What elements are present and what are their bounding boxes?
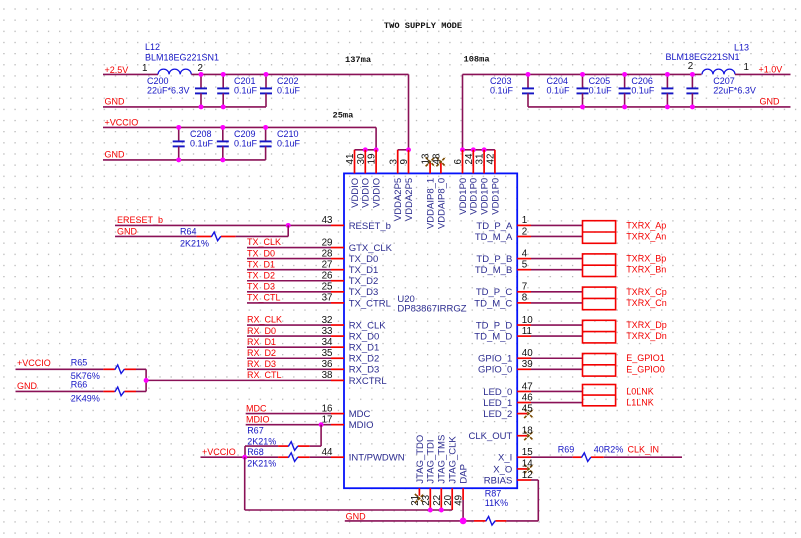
junction dot +VCCIO / JTAG pull — [242, 455, 247, 460]
svg-text:2K21%: 2K21% — [247, 437, 276, 447]
svg-text:TXRX_Dp: TXRX_Dp — [626, 320, 667, 330]
svg-text:TX_D1: TX_D1 — [247, 259, 275, 269]
svg-text:TX_D1: TX_D1 — [349, 265, 379, 276]
net label RX_D0 and wire — [247, 326, 331, 336]
U20 pin 7 TD_P_C (right) — [476, 282, 531, 299]
U20 pin 35 RX_D2 (left) — [322, 348, 380, 365]
svg-text:GND: GND — [117, 226, 138, 236]
U20 pin 8 TD_M_C (right) — [474, 293, 531, 310]
svg-text:0.1uF: 0.1uF — [234, 85, 258, 95]
svg-text:0.1uF: 0.1uF — [277, 138, 301, 148]
svg-text:L13: L13 — [734, 42, 749, 52]
wire R87 to RBIAS — [506, 480, 538, 521]
junction dots VDD1P0 bar — [460, 147, 487, 152]
svg-text:MDC: MDC — [349, 409, 371, 420]
svg-text:LED_1: LED_1 — [483, 398, 512, 409]
capacitor C209 — [217, 127, 258, 159]
svg-text:VDDAIP8_1: VDDAIP8_1 — [426, 178, 437, 229]
U20 pin 44 INT/PWDWN (left) — [322, 447, 405, 464]
resistor R67 — [247, 426, 310, 451]
svg-text:+2.5V: +2.5V — [105, 65, 129, 75]
net label MDC and wire — [246, 403, 331, 413]
svg-text:JTAG_TMS: JTAG_TMS — [437, 435, 448, 484]
svg-text:0.1uF: 0.1uF — [234, 138, 258, 148]
svg-text:41: 41 — [345, 154, 356, 165]
svg-text:INT/PWDWN: INT/PWDWN — [349, 453, 405, 464]
U20 pin 1 TD_P_A (right) — [476, 215, 531, 232]
wire pin to connector L0LNK — [531, 390, 583, 392]
U20 pin 13 VDDAIP8_1 (top) — [421, 153, 437, 229]
inductor L13 — [666, 42, 750, 74]
svg-text:3: 3 — [388, 159, 399, 165]
svg-text:ERESET_b: ERESET_b — [117, 215, 163, 225]
U20 pin 29 GTX_CLK (left) — [322, 237, 393, 254]
capacitor C200 — [147, 74, 207, 107]
capacitor C206 — [631, 74, 673, 107]
resistor R66 — [71, 380, 136, 404]
wire R68 to pin 44 — [310, 456, 331, 458]
svg-text:10: 10 — [522, 315, 533, 326]
junction dot VDDA2P5 bar — [406, 147, 411, 152]
svg-text:TX_CTL: TX_CTL — [247, 293, 281, 303]
junction dots +1.0V rail — [526, 72, 695, 77]
capacitor C203 — [490, 74, 534, 107]
svg-text:35: 35 — [322, 348, 333, 359]
U20 pin 3 VDDA2P5 (top) — [388, 150, 404, 221]
svg-text:31: 31 — [475, 154, 486, 165]
svg-text:2: 2 — [688, 61, 693, 72]
svg-text:12: 12 — [522, 470, 533, 481]
wire VDD1P0 power bar — [463, 149, 495, 151]
U20 pin 11 TD_M_D (right) — [474, 326, 532, 343]
svg-text:MDC: MDC — [246, 403, 267, 413]
capacitor C201 — [217, 74, 257, 107]
svg-text:RX_D0: RX_D0 — [349, 332, 380, 343]
svg-text:11: 11 — [522, 326, 532, 337]
svg-text:0.1uF: 0.1uF — [190, 138, 214, 148]
svg-text:VDDAIP8_0: VDDAIP8_0 — [436, 178, 447, 229]
capacitor C210 — [260, 127, 301, 159]
svg-text:40R2%: 40R2% — [594, 445, 624, 455]
svg-text:13: 13 — [421, 153, 432, 164]
wire R67 right lead up to MDIO — [310, 425, 321, 446]
wire +VCCIO to R68 — [201, 456, 279, 458]
U20 pin 43 RESET_b (left) — [322, 215, 391, 232]
svg-text:49: 49 — [454, 495, 465, 506]
U20 pin 10 TD_P_D (right) — [476, 315, 533, 332]
svg-text:C202: C202 — [277, 76, 299, 86]
net label RX_CTL and wire from divider node — [146, 370, 331, 380]
svg-text:TD_M_B: TD_M_B — [475, 265, 512, 276]
U20 pin 6 VDD1P0 (top) — [453, 150, 469, 215]
svg-text:TXRX_Cn: TXRX_Cn — [626, 298, 667, 308]
svg-text:MDIO: MDIO — [246, 414, 270, 424]
svg-text:TXRX_Cp: TXRX_Cp — [626, 287, 667, 297]
svg-text:C205: C205 — [589, 76, 611, 86]
junction dots VDDIO bar — [363, 147, 379, 152]
svg-text:16: 16 — [322, 403, 333, 414]
wire +2.5V vertical feed down to VDDA2P5 pins — [408, 74, 410, 149]
svg-text:8: 8 — [522, 293, 528, 304]
svg-text:39: 39 — [522, 359, 533, 370]
U20 pin 27 TX_D1 (left) — [322, 259, 379, 276]
net label TX_D2 and wire — [247, 270, 331, 280]
svg-text:5: 5 — [522, 259, 528, 270]
svg-text:44: 44 — [322, 447, 333, 458]
svg-text:6: 6 — [453, 159, 464, 165]
op-amp U20 DP83867IRRGZ body — [344, 173, 517, 488]
svg-text:X_I: X_I — [498, 453, 512, 464]
svg-text:25: 25 — [322, 282, 333, 293]
svg-text:18: 18 — [522, 426, 533, 437]
capacitor C208 — [173, 127, 214, 159]
wire VDDA2P5 power bar — [398, 149, 409, 151]
net label RX_D3 and wire — [247, 359, 331, 369]
svg-text:R69: R69 — [558, 445, 575, 455]
svg-text:48: 48 — [432, 153, 443, 164]
svg-text:21: 21 — [410, 495, 421, 506]
svg-text:1: 1 — [522, 215, 527, 226]
wire GND to R64 — [115, 235, 197, 237]
U20 pin 5 TD_M_B (right) — [475, 259, 531, 276]
svg-text:C208: C208 — [190, 129, 212, 139]
svg-text:19: 19 — [367, 154, 378, 165]
svg-text:2K21%: 2K21% — [247, 459, 276, 469]
wire VDDIO power bar — [355, 149, 377, 151]
wire GND to R66 — [16, 390, 104, 392]
capacitor C204 — [547, 74, 589, 107]
svg-text:GND: GND — [760, 96, 781, 106]
svg-text:TXRX_Bn: TXRX_Bn — [626, 265, 666, 275]
svg-text:LED_0: LED_0 — [483, 387, 512, 398]
wire GND return under C208-C210 — [103, 159, 266, 161]
U20 pin 19 VDDIO (top) — [367, 150, 383, 208]
svg-text:0.1uF: 0.1uF — [490, 85, 514, 95]
U20 pin 14 X_O (right) — [493, 459, 533, 476]
svg-text:R68: R68 — [247, 447, 264, 457]
U20 pin 4 TD_P_B (right) — [476, 248, 531, 265]
U20 pin 42 VDD1P0 (top) — [486, 150, 502, 215]
svg-text:RESET_b: RESET_b — [349, 221, 391, 232]
svg-text:L1LNK: L1LNK — [626, 398, 654, 408]
svg-text:0.1uF: 0.1uF — [277, 85, 301, 95]
svg-text:RX_D2: RX_D2 — [349, 354, 380, 365]
svg-text:RX_D3: RX_D3 — [247, 359, 276, 369]
svg-text:29: 29 — [322, 237, 333, 248]
svg-text:TX_D2: TX_D2 — [349, 276, 379, 287]
svg-text:33: 33 — [322, 326, 333, 337]
svg-text:47: 47 — [522, 381, 533, 392]
svg-text:25ma: 25ma — [333, 110, 354, 120]
junction dot divider node — [144, 378, 149, 383]
wire +VCCIO node down to JTAG pull wire — [245, 457, 453, 510]
wire +1.0V vertical feed down to VDD1P0 pins — [462, 74, 464, 149]
off-page connector box L0LNK/L1LNK — [583, 385, 616, 406]
U20 pin 38 RXCTRL (left) — [322, 370, 387, 387]
U20 pin 37 TX_CTRL (left) — [322, 293, 391, 310]
svg-text:TWO SUPPLY MODE: TWO SUPPLY MODE — [384, 21, 462, 31]
svg-text:37: 37 — [322, 293, 333, 304]
net label RX_D1 and wire — [247, 337, 331, 347]
U20 pin 23 JTAG_TDI (bottom) — [421, 439, 437, 510]
svg-text:30: 30 — [356, 153, 367, 164]
svg-text:C210: C210 — [277, 129, 299, 139]
svg-text:27: 27 — [322, 259, 333, 270]
svg-text:34: 34 — [322, 337, 333, 348]
svg-text:GPIO_1: GPIO_1 — [478, 354, 512, 365]
wire GND rail to R87 — [345, 520, 474, 522]
svg-text:VDD1P0: VDD1P0 — [469, 178, 480, 215]
wire ERESET_b to pin 43 — [115, 224, 331, 226]
U20 pin 41 VDDIO (top) — [345, 150, 361, 208]
svg-text:C204: C204 — [547, 76, 569, 86]
U20 pin 9 VDDA2P5 (top) — [399, 150, 415, 221]
wire R64 to ERESET_b node — [236, 225, 289, 236]
U20 pin 26 TX_D2 (left) — [322, 271, 379, 288]
svg-text:GND: GND — [105, 150, 126, 160]
U20 pin 36 RX_D3 (left) — [322, 359, 380, 376]
svg-text:VDDA2P5: VDDA2P5 — [404, 178, 415, 221]
svg-text:22: 22 — [432, 495, 443, 506]
svg-text:C201: C201 — [234, 76, 256, 86]
svg-text:+VCCIO: +VCCIO — [105, 117, 139, 127]
net label RX_D2 and wire — [247, 348, 331, 358]
U20 pin 15 X_I (right) — [498, 447, 533, 464]
off-page connector box TXRX_Ap/TXRX_An — [583, 221, 616, 244]
wire pin to connector TXRX_Cn — [531, 302, 583, 304]
svg-text:RX_D1: RX_D1 — [349, 343, 380, 354]
U20 pin 21 JTAG_TDO (bottom) — [410, 435, 426, 506]
svg-text:RBIAS: RBIAS — [484, 475, 513, 486]
svg-text:RX_D2: RX_D2 — [247, 348, 276, 358]
svg-text:42: 42 — [486, 154, 497, 165]
svg-text:137ma: 137ma — [345, 55, 371, 65]
inductor L12 — [145, 42, 219, 75]
resistor R64 — [180, 226, 236, 248]
svg-text:23: 23 — [421, 494, 432, 505]
svg-text:22uF*6.3V: 22uF*6.3V — [147, 85, 190, 95]
junction dot ERESET_b / R64 — [286, 223, 291, 228]
wire R65 to divider node — [136, 369, 146, 380]
net label TX_D0 and wire — [247, 248, 331, 258]
svg-text:7: 7 — [522, 282, 527, 293]
U20 pin 45 LED_2 (right) — [483, 403, 533, 420]
U20 pin 33 RX_D0 (left) — [322, 326, 380, 343]
svg-text:R67: R67 — [247, 426, 264, 436]
wire +1.0V rail — [463, 73, 702, 75]
svg-text:C200: C200 — [147, 76, 169, 86]
svg-text:GPIO_0: GPIO_0 — [478, 365, 512, 376]
junction dots GND return 2 — [176, 157, 225, 162]
svg-text:C209: C209 — [234, 129, 256, 139]
wire pin to connector TXRX_Dp — [531, 324, 583, 326]
U20 pin 48 VDDAIP8_0 (top) — [432, 153, 448, 229]
net label MDIO and wire — [246, 414, 331, 424]
svg-text:2: 2 — [522, 226, 527, 237]
svg-text:JTAG_TDO: JTAG_TDO — [415, 435, 426, 484]
wire pin to connector TXRX_Bn — [531, 269, 583, 271]
svg-text:CLK_OUT: CLK_OUT — [468, 431, 512, 442]
svg-text:L12: L12 — [145, 42, 160, 52]
wire pin to connector TXRX_Dn — [531, 335, 583, 337]
junction dots GND return right — [580, 104, 695, 109]
svg-text:DP83867IRRGZ: DP83867IRRGZ — [397, 303, 466, 314]
svg-text:GTX_CLK: GTX_CLK — [349, 243, 393, 254]
svg-text:JTAG_CLK: JTAG_CLK — [448, 436, 459, 484]
net label CLK_IN and wire — [604, 445, 682, 458]
svg-text:R65: R65 — [71, 358, 88, 368]
wire +2.5V rail from L12 to IC feed corner — [191, 73, 408, 75]
svg-text:TXRX_An: TXRX_An — [626, 231, 666, 241]
svg-text:VDD1P0: VDD1P0 — [458, 178, 469, 215]
U20 pin 39 GPIO_0 (right) — [478, 359, 533, 376]
svg-text:20: 20 — [443, 494, 454, 505]
svg-text:2K49%: 2K49% — [71, 393, 100, 403]
svg-text:LED_2: LED_2 — [483, 409, 512, 420]
resistor R87 — [474, 489, 508, 526]
resistor R65 — [71, 358, 136, 382]
svg-text:38: 38 — [322, 370, 333, 381]
junction dots +VCCIO rail — [176, 125, 268, 130]
svg-text:43: 43 — [322, 215, 333, 226]
junction dot MDIO / R67 — [319, 422, 324, 427]
svg-text:TD_P_B: TD_P_B — [476, 254, 512, 265]
junction dots +2.5V rail — [199, 72, 269, 77]
svg-text:TXRX_Bp: TXRX_Bp — [626, 254, 666, 264]
svg-text:VDD1P0: VDD1P0 — [490, 178, 501, 215]
wire pin to connector TXRX_Ap — [531, 224, 583, 226]
svg-text:4: 4 — [522, 248, 528, 259]
wire pin to connector E_GPIO1 — [531, 357, 583, 359]
net label RX_CLK and wire — [247, 315, 331, 325]
svg-text:RXCTRL: RXCTRL — [349, 376, 387, 387]
svg-text:RX_CLK: RX_CLK — [349, 320, 387, 331]
off-page connector box TXRX_Bp/TXRX_Bn — [583, 254, 616, 277]
svg-text:2K21%: 2K21% — [180, 238, 209, 248]
svg-text:32: 32 — [322, 315, 333, 326]
svg-text:28: 28 — [322, 248, 333, 259]
svg-text:24: 24 — [464, 153, 475, 164]
wire +2.5V rail left of L12 — [103, 73, 158, 75]
junction dots JTAG pull wire — [428, 508, 444, 513]
wire pin to connector E_GPIO0 — [531, 368, 583, 370]
svg-text:TX_CLK: TX_CLK — [247, 237, 281, 247]
svg-text:E_GPIO1: E_GPIO1 — [626, 353, 665, 363]
U20 pin 2 TD_M_A (right) — [475, 226, 531, 243]
off-page connector box E_GPIO1/E_GPIO0 — [583, 354, 616, 377]
U20 pin 31 VDD1P0 (top) — [475, 150, 491, 215]
svg-text:11K%: 11K% — [485, 498, 508, 508]
svg-text:TX_D3: TX_D3 — [349, 287, 379, 298]
svg-text:C203: C203 — [490, 76, 512, 86]
U20 pin 22 JTAG_TMS (bottom) — [432, 435, 448, 510]
svg-text:VDDIO: VDDIO — [361, 178, 372, 208]
svg-text:GND: GND — [346, 511, 367, 521]
U20 pin 46 LED_1 (right) — [483, 392, 533, 409]
svg-text:RX_CLK: RX_CLK — [247, 315, 282, 325]
svg-text:26: 26 — [322, 271, 333, 282]
svg-text:BLM18EG221SN1: BLM18EG221SN1 — [666, 52, 740, 62]
U20 pin 17 MDIO (left) — [322, 414, 374, 431]
svg-text:TD_M_A: TD_M_A — [475, 232, 513, 243]
U20 pin 49 DAP (bottom) — [454, 464, 470, 521]
svg-text:CLK_IN: CLK_IN — [628, 445, 660, 455]
svg-text:TX_D2: TX_D2 — [247, 270, 275, 280]
wire +VCCIO to R65 — [16, 368, 104, 370]
svg-text:+VCCIO: +VCCIO — [17, 358, 51, 368]
svg-text:0.1uF: 0.1uF — [547, 85, 571, 95]
wire GND return under C200-C202 — [103, 106, 266, 108]
svg-text:JTAG_TDI: JTAG_TDI — [426, 439, 437, 483]
svg-text:L0LNK: L0LNK — [626, 386, 654, 396]
net label TX_D3 and wire — [247, 282, 331, 292]
svg-text:TD_P_D: TD_P_D — [476, 320, 513, 331]
U20 pin 40 GPIO_1 (right) — [478, 348, 533, 365]
svg-text:BLM18EG221SN1: BLM18EG221SN1 — [145, 52, 219, 62]
wire R66 to divider node — [136, 380, 146, 391]
svg-text:TXRX_Ap: TXRX_Ap — [626, 220, 666, 230]
svg-text:TXRX_Dn: TXRX_Dn — [626, 331, 667, 341]
svg-text:X_O: X_O — [493, 464, 512, 475]
svg-text:TX_D0: TX_D0 — [247, 248, 275, 258]
svg-text:TD_P_A: TD_P_A — [476, 221, 513, 232]
wire pin to connector TXRX_An — [531, 235, 583, 237]
U20 pin 24 VDD1P0 (top) — [464, 150, 480, 215]
svg-text:TD_P_C: TD_P_C — [476, 287, 513, 298]
svg-text:+VCCIO: +VCCIO — [202, 447, 236, 457]
wire pin to connector TXRX_Bp — [531, 258, 583, 260]
svg-text:MDIO: MDIO — [349, 420, 374, 431]
resistor R69 — [558, 445, 624, 462]
svg-text:0.1uF: 0.1uF — [589, 85, 613, 95]
svg-text:9: 9 — [399, 159, 410, 164]
U20 pin 34 RX_D1 (left) — [322, 337, 380, 354]
U20 pin 18 CLK_OUT (right) — [468, 426, 533, 443]
svg-text:VDDA2P5: VDDA2P5 — [393, 178, 404, 221]
svg-text:14: 14 — [522, 459, 533, 470]
U20 pin 30 VDDIO (top) — [356, 150, 372, 208]
svg-text:22uF*6.3V: 22uF*6.3V — [713, 85, 756, 95]
resistor R68 — [247, 447, 310, 469]
svg-text:+1.0V: +1.0V — [759, 65, 783, 75]
U20 pin 28 TX_D0 (left) — [322, 248, 379, 265]
U20 pin 20 JTAG_CLK (bottom) — [443, 436, 459, 510]
svg-text:VDD1P0: VDD1P0 — [480, 178, 491, 215]
off-page connector box TXRX_Dp/TXRX_Dn — [583, 320, 616, 343]
svg-text:46: 46 — [522, 392, 533, 403]
svg-text:C206: C206 — [631, 76, 653, 86]
wire +VCCIO vertical feed down to VDDIO pins — [375, 127, 377, 149]
wire R67 left lead down to +VCCIO node — [245, 446, 278, 457]
svg-text:TX_D0: TX_D0 — [349, 254, 379, 265]
off-page connector box TXRX_Cp/TXRX_Cn — [583, 287, 616, 310]
svg-text:GND: GND — [17, 381, 38, 391]
svg-text:1: 1 — [142, 63, 147, 74]
wire pin to connector TXRX_Cp — [531, 291, 583, 293]
svg-text:TD_M_D: TD_M_D — [474, 332, 512, 343]
svg-text:VDDIO: VDDIO — [350, 178, 361, 208]
U20 pin 25 TX_D3 (left) — [322, 282, 379, 299]
svg-text:0.1uF: 0.1uF — [631, 85, 655, 95]
svg-text:RX_D0: RX_D0 — [247, 326, 276, 336]
svg-text:E_GPIO0: E_GPIO0 — [626, 364, 665, 374]
svg-text:C207: C207 — [713, 76, 735, 86]
svg-text:DAP: DAP — [459, 464, 470, 484]
svg-text:36: 36 — [322, 359, 333, 370]
wire X_I to R69 — [531, 456, 573, 458]
svg-text:VDDIO: VDDIO — [372, 178, 383, 208]
wire +1.0V rail right of L13 — [735, 73, 791, 75]
